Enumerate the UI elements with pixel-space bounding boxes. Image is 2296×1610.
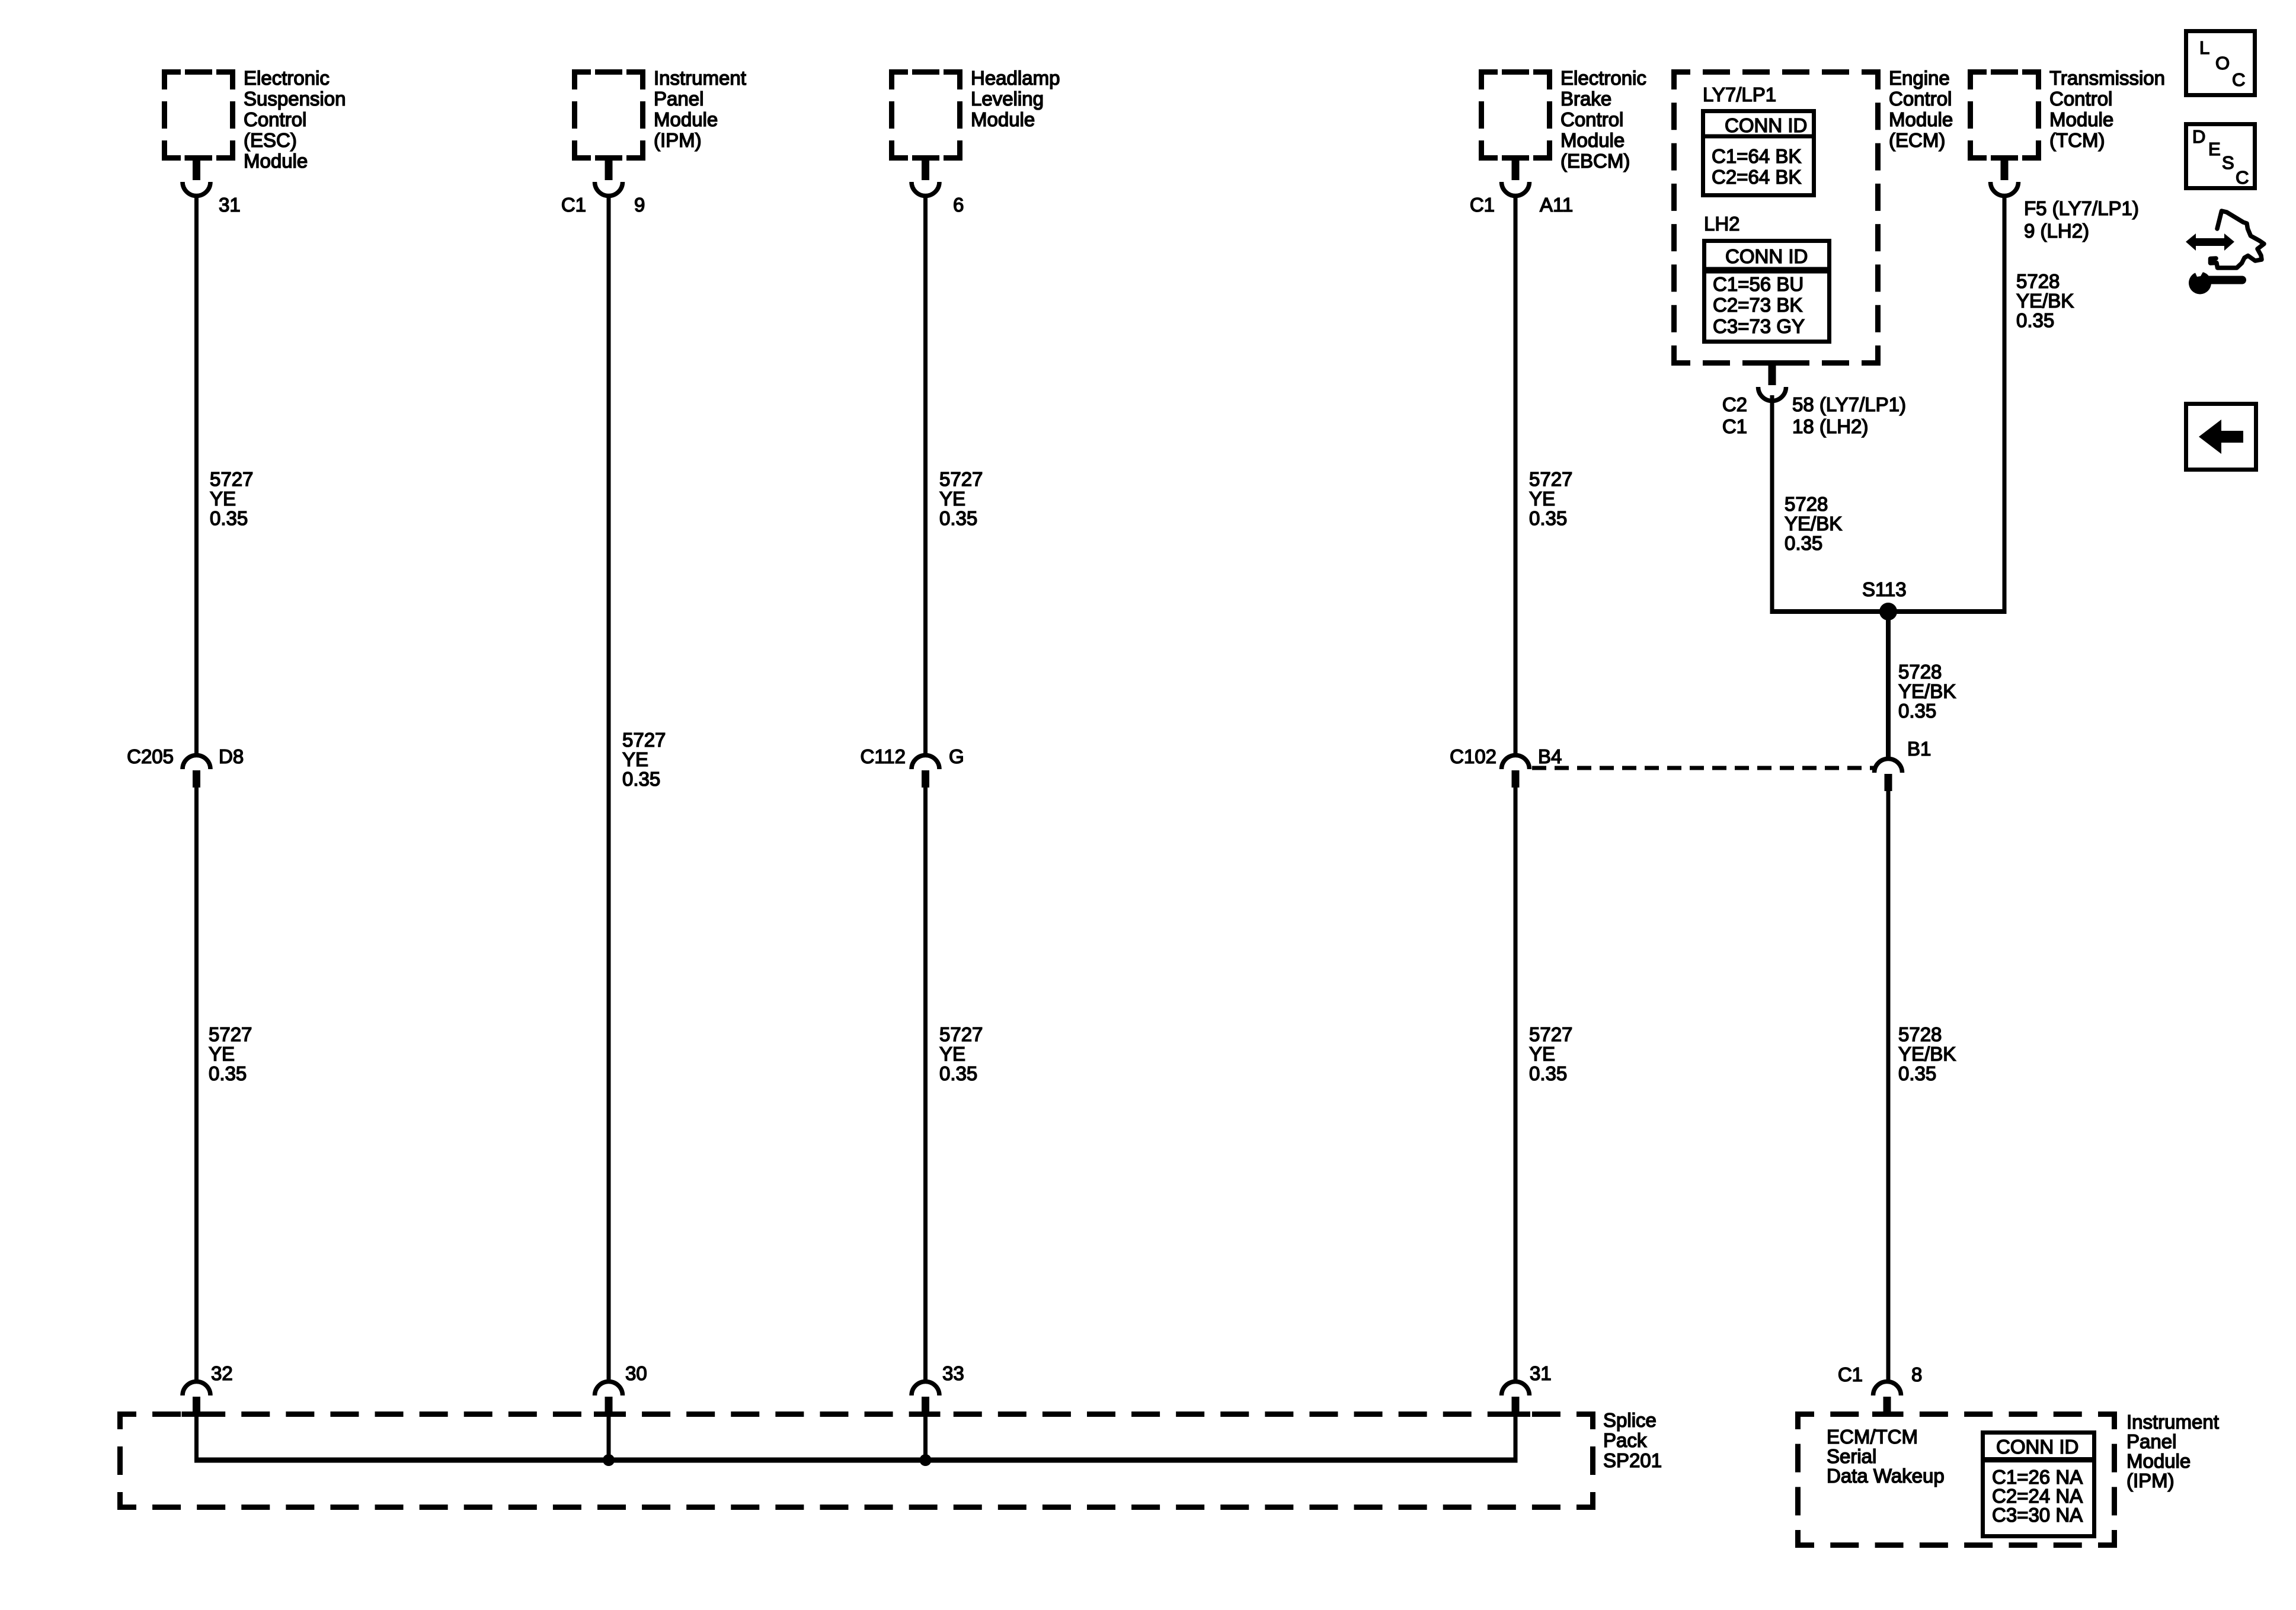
svg-text:9 (LH2): 9 (LH2)	[2024, 220, 2089, 242]
component box: Splice Pack SP201 (dashed)	[120, 1414, 1593, 1507]
value label: 5728 YE/BK 0.35 (ECM drop)	[1785, 493, 1842, 554]
icon: DESC hotlink box	[2186, 124, 2255, 188]
svg-text:0.35: 0.35	[622, 768, 660, 790]
table: CONN ID (LY7/LP1)	[1703, 111, 1814, 196]
wire: dashed link C102 B4 to B1	[1532, 766, 1873, 770]
svg-text:Control: Control	[1560, 108, 1623, 130]
junction: splice S113	[1879, 603, 1897, 620]
svg-text:0.35: 0.35	[939, 1062, 977, 1084]
svg-text:5727: 5727	[939, 468, 983, 490]
svg-text:5727: 5727	[622, 729, 666, 751]
pin 31 (SP201)	[1530, 1362, 1552, 1384]
svg-text:YE: YE	[939, 1043, 965, 1065]
label: LY7/LP1 engine variant	[1703, 84, 1776, 105]
svg-text:Control: Control	[244, 108, 306, 130]
icon: vehicle hotlink (outline with double arrow and wrench)	[2186, 211, 2264, 295]
svg-text:CONN ID: CONN ID	[1725, 114, 1807, 136]
svg-text:Splice: Splice	[1603, 1409, 1657, 1431]
svg-text:5728: 5728	[1898, 1023, 1942, 1045]
connector: splice pack pin 32	[182, 1382, 212, 1417]
pin 6 (Headlamp Leveling Module)	[953, 194, 964, 216]
svg-text:D8: D8	[219, 745, 244, 767]
svg-text:Electronic: Electronic	[244, 67, 330, 89]
label: ESC module name	[244, 67, 346, 172]
svg-text:A11: A11	[1540, 194, 1573, 216]
pin 31 (ESC)	[219, 194, 241, 216]
svg-text:0.35: 0.35	[1785, 532, 1822, 554]
value label: 5727 YE 0.35 (col4 lower)	[1529, 1023, 1572, 1084]
svg-text:D: D	[2192, 126, 2205, 147]
label: IPM module name	[654, 67, 746, 151]
connector: IPM pin	[595, 155, 623, 196]
svg-text:5727: 5727	[1529, 468, 1572, 490]
pin label C102	[1450, 745, 1496, 767]
label: TCM module name	[2049, 67, 2165, 151]
pin 8 (IPM bottom)	[1911, 1363, 1922, 1385]
svg-text:YE: YE	[1529, 488, 1555, 510]
svg-text:SP201: SP201	[1603, 1449, 1662, 1471]
svg-text:Instrument: Instrument	[2126, 1411, 2219, 1433]
connector: splice pack pin 33	[911, 1382, 941, 1417]
label: Instrument Panel Module (IPM) name	[2126, 1411, 2219, 1491]
module box: Electronic Brake Control Module (EBCM)	[1482, 72, 1550, 158]
pin label B1	[1907, 738, 1931, 760]
value label: 5728 YE/BK 0.35 (S113 to B1)	[1898, 661, 1956, 722]
svg-text:5727: 5727	[939, 1023, 983, 1045]
value label: 5727 YE 0.35 (col4 upper)	[1529, 468, 1572, 529]
junction: bus dot pin 33	[920, 1454, 932, 1466]
module box: Electronic Suspension Control (ESC) Module	[165, 72, 233, 158]
wire: circuit 5727 C102 to splice pack pin 31	[1514, 788, 1518, 1382]
svg-text:E: E	[2208, 139, 2221, 159]
svg-text:Pack: Pack	[1603, 1429, 1647, 1451]
svg-text:C3=30 NA: C3=30 NA	[1992, 1504, 2083, 1526]
svg-text:Module: Module	[244, 150, 308, 172]
pin C2 (ECM LY7/LP1)	[1722, 393, 1747, 415]
svg-text:C1=56 BU: C1=56 BU	[1713, 273, 1803, 295]
svg-text:5727: 5727	[1529, 1023, 1572, 1045]
svg-text:5727: 5727	[210, 468, 253, 490]
svg-text:C205: C205	[127, 745, 174, 767]
svg-text:Module: Module	[654, 108, 718, 130]
pin 9 (LH2) (TCM)	[2024, 220, 2089, 242]
svg-text:(IPM): (IPM)	[654, 129, 702, 151]
svg-text:YE: YE	[210, 488, 236, 510]
icon: LOC hotlink box	[2186, 31, 2255, 95]
svg-text:O: O	[2215, 53, 2230, 73]
label: EBCM module name	[1560, 67, 1646, 172]
svg-text:G: G	[949, 745, 964, 767]
svg-text:(IPM): (IPM)	[2126, 1470, 2175, 1491]
svg-text:CONN ID: CONN ID	[1996, 1436, 2078, 1458]
pin F5 (LY7/LP1) (TCM)	[2024, 197, 2139, 219]
connector C112 pin G (inline)	[912, 755, 939, 788]
connector: splice pack pin 31	[1501, 1382, 1530, 1417]
svg-text:(ESC): (ESC)	[244, 129, 297, 151]
svg-text:C1: C1	[1838, 1363, 1863, 1385]
svg-text:YE: YE	[622, 748, 648, 770]
pin C1 (ECM LH2)	[1722, 415, 1747, 437]
svg-text:9: 9	[634, 194, 645, 216]
svg-text:YE: YE	[939, 488, 965, 510]
svg-text:Panel: Panel	[2126, 1430, 2176, 1452]
svg-text:Module: Module	[2126, 1450, 2191, 1472]
svg-text:0.35: 0.35	[1529, 1062, 1567, 1084]
svg-text:C1=64 BK: C1=64 BK	[1712, 145, 1801, 167]
wire: pin 30 into splice bus	[607, 1416, 611, 1460]
pin C1 (EBCM)	[1470, 194, 1495, 216]
svg-text:C2=64 BK: C2=64 BK	[1712, 166, 1801, 188]
svg-text:C102: C102	[1450, 745, 1496, 767]
svg-text:Serial: Serial	[1827, 1445, 1876, 1467]
svg-text:Panel: Panel	[654, 88, 703, 110]
wire: pin 33 into splice bus	[923, 1416, 928, 1460]
svg-text:Module: Module	[971, 108, 1035, 130]
svg-text:32: 32	[211, 1362, 233, 1384]
value label: 5727 YE 0.35 (col3 lower)	[939, 1023, 983, 1084]
svg-text:C3=73 GY: C3=73 GY	[1713, 315, 1805, 337]
pin label D8	[219, 745, 244, 767]
svg-text:Suspension: Suspension	[244, 88, 346, 110]
svg-text:Leveling: Leveling	[971, 88, 1044, 110]
pin 33 (SP201)	[942, 1362, 964, 1384]
svg-text:Control: Control	[1889, 88, 1952, 110]
pin 18 (LH2)	[1792, 415, 1868, 437]
svg-text:Module: Module	[1560, 129, 1625, 151]
pin A11 (EBCM)	[1540, 194, 1573, 216]
connector C102 pin B4 (inline)	[1502, 755, 1530, 788]
svg-text:LH2: LH2	[1704, 213, 1740, 235]
value label: 5728 YE/BK 0.35 (B1 to IPM)	[1898, 1023, 1956, 1084]
svg-text:S113: S113	[1862, 578, 1907, 600]
connector: IPM pin C1-8	[1872, 1382, 1902, 1417]
icon: back arrow box	[2186, 404, 2256, 470]
svg-text:5727: 5727	[209, 1023, 252, 1045]
pin C1 (IPM)	[561, 194, 586, 216]
pin 32 (SP201)	[211, 1362, 233, 1384]
svg-text:C2: C2	[1722, 393, 1747, 415]
wire: circuit 5727 Headlamp pin 6 to C112	[923, 196, 928, 756]
svg-text:L: L	[2199, 37, 2209, 58]
svg-text:YE/BK: YE/BK	[2016, 290, 2074, 312]
value label: 5728 YE/BK 0.35 (TCM drop)	[2016, 270, 2074, 331]
label: Headlamp Leveling Module name	[971, 67, 1060, 130]
connector C205 pin D8 (inline)	[183, 755, 210, 788]
svg-text:5728: 5728	[1898, 661, 1942, 683]
pin 9 (IPM)	[634, 194, 645, 216]
module box: Instrument Panel Module (IPM)	[575, 72, 643, 158]
svg-text:B1: B1	[1907, 738, 1931, 760]
svg-text:6: 6	[953, 194, 964, 216]
wire: circuit 5727 EBCM pin A11 to C102	[1514, 196, 1518, 756]
svg-text:YE/BK: YE/BK	[1898, 1043, 1956, 1065]
wire: circuit 5727 C205 to splice pack pin 32	[194, 788, 199, 1382]
svg-text:C112: C112	[861, 745, 906, 767]
svg-text:0.35: 0.35	[939, 507, 977, 529]
svg-text:0.35: 0.35	[2016, 309, 2054, 331]
svg-text:0.35: 0.35	[1898, 1062, 1936, 1084]
table: CONN ID (IPM)	[1983, 1433, 2094, 1537]
pin label C205	[127, 745, 174, 767]
pin 58 (LY7/LP1)	[1792, 393, 1906, 415]
svg-text:C1: C1	[561, 194, 586, 216]
svg-text:YE: YE	[209, 1043, 235, 1065]
svg-text:31: 31	[1530, 1362, 1552, 1384]
svg-text:30: 30	[625, 1362, 647, 1384]
svg-text:YE/BK: YE/BK	[1898, 680, 1956, 702]
wire: pin 32 into splice bus	[194, 1416, 199, 1460]
svg-text:Module: Module	[1889, 108, 1953, 130]
svg-text:(ECM): (ECM)	[1889, 129, 1945, 151]
svg-text:C1: C1	[1470, 194, 1495, 216]
label: ECM/TCM Serial Data Wakeup	[1827, 1426, 1945, 1487]
svg-text:YE: YE	[1529, 1043, 1555, 1065]
value label: 5727 YE 0.35 (col1 upper)	[210, 468, 253, 529]
label: Splice Pack SP201	[1603, 1409, 1662, 1471]
wire: circuit 5728 ECM pin to S113	[1770, 395, 1774, 614]
svg-text:(TCM): (TCM)	[2049, 129, 2105, 151]
svg-text:Data Wakeup: Data Wakeup	[1827, 1465, 1945, 1487]
svg-text:LY7/LP1: LY7/LP1	[1703, 84, 1776, 105]
svg-text:33: 33	[942, 1362, 964, 1384]
junction: bus dot pin 30	[603, 1454, 615, 1466]
svg-text:ECM/TCM: ECM/TCM	[1827, 1426, 1918, 1448]
svg-text:Electronic: Electronic	[1560, 67, 1646, 89]
connector: TCM pin	[1991, 155, 2019, 196]
module box: Transmission Control Module (TCM)	[1971, 72, 2039, 158]
module box: Instrument Panel Module (IPM) bottom (dashed)	[1798, 1414, 2115, 1545]
svg-text:18 (LH2): 18 (LH2)	[1792, 415, 1868, 437]
svg-text:S: S	[2222, 152, 2234, 173]
table: CONN ID (LH2)	[1705, 241, 1830, 342]
wire: circuit 5728 S113 to B1	[1886, 612, 1891, 759]
svg-text:B4: B4	[1538, 745, 1562, 767]
connector: ECM pin	[1758, 360, 1786, 401]
module box: Headlamp Leveling Module	[892, 72, 960, 158]
svg-text:C: C	[2232, 69, 2245, 90]
svg-text:0.35: 0.35	[210, 507, 248, 529]
connector B1 (inline, dashed link)	[1875, 759, 1902, 792]
wire: circuit 5727 ESC pin 31 to C205	[194, 196, 199, 756]
wire: S113 horizontal bus	[1770, 609, 2007, 614]
svg-text:5728: 5728	[2016, 270, 2060, 292]
svg-text:0.35: 0.35	[209, 1062, 247, 1084]
svg-text:Brake: Brake	[1560, 88, 1611, 110]
svg-text:CONN ID: CONN ID	[1725, 245, 1808, 267]
svg-text:0.35: 0.35	[1529, 507, 1567, 529]
svg-text:(EBCM): (EBCM)	[1560, 150, 1630, 172]
svg-text:C: C	[2236, 167, 2249, 188]
svg-text:0.35: 0.35	[1898, 700, 1936, 722]
value label: 5727 YE 0.35 (col1 lower)	[209, 1023, 252, 1084]
pin label C112	[861, 745, 906, 767]
connector: EBCM pin	[1502, 155, 1530, 196]
connector: Headlamp Leveling Module pin	[912, 155, 939, 196]
wire: splice bus SP201	[194, 1458, 1518, 1463]
connector: splice pack pin 30	[594, 1382, 623, 1417]
svg-text:F5 (LY7/LP1): F5 (LY7/LP1)	[2024, 197, 2139, 219]
value label: 5727 YE 0.35 (col2)	[622, 729, 666, 790]
label: ECM module name	[1889, 67, 1953, 151]
svg-text:C1: C1	[1722, 415, 1747, 437]
svg-text:31: 31	[219, 194, 241, 216]
pin 30 (SP201)	[625, 1362, 647, 1384]
svg-text:Headlamp: Headlamp	[971, 67, 1060, 89]
svg-text:5728: 5728	[1785, 493, 1828, 515]
svg-text:Module: Module	[2049, 108, 2113, 130]
wire: circuit 5728 TCM pin F5 to S113	[2003, 196, 2007, 614]
label: LH2 engine variant	[1704, 213, 1740, 235]
value label: 5727 YE 0.35 (col3 upper)	[939, 468, 983, 529]
svg-text:Control: Control	[2049, 88, 2112, 110]
pin label B4	[1538, 745, 1562, 767]
wire: circuit 5727 C112 to splice pack pin 33	[923, 788, 928, 1382]
svg-text:YE/BK: YE/BK	[1785, 513, 1842, 534]
wire: pin 31 into splice bus	[1514, 1416, 1518, 1460]
svg-text:Transmission: Transmission	[2049, 67, 2165, 89]
svg-text:8: 8	[1911, 1363, 1922, 1385]
connector: ESC module pin	[183, 155, 210, 196]
pin label G	[949, 745, 964, 767]
svg-text:C2=73 BK: C2=73 BK	[1713, 294, 1802, 316]
module box: Engine Control Module (ECM)	[1674, 72, 1878, 363]
pin C1 (IPM bottom)	[1838, 1363, 1863, 1385]
label: splice S113	[1862, 578, 1907, 600]
svg-text:Instrument: Instrument	[654, 67, 746, 89]
wire: circuit 5728 B1 to IPM pin 8	[1886, 791, 1891, 1382]
svg-text:58 (LY7/LP1): 58 (LY7/LP1)	[1792, 393, 1906, 415]
wire: circuit 5727 IPM pin 9 to splice pack pin 30	[607, 196, 611, 1382]
svg-text:Engine: Engine	[1889, 67, 1950, 89]
